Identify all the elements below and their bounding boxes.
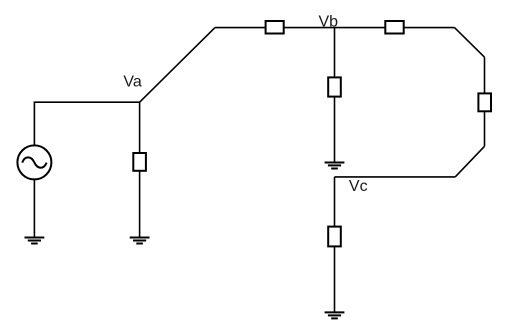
ground (source)	[25, 238, 45, 244]
resistor R4 (Vb branch vertical)	[328, 77, 341, 96]
ground (Vc branch)	[325, 312, 345, 318]
wire: right vertical	[484, 57, 486, 146]
wire: top horizontal bus	[215, 27, 455, 29]
wire: Vc horizontal run	[335, 176, 456, 178]
wire: bottom-right diagonal	[455, 146, 484, 177]
ground (Va branch)	[130, 238, 150, 244]
resistor R2 (top-right horizontal)	[385, 21, 403, 34]
resistor R3 (Va branch vertical)	[133, 153, 146, 171]
resistor R5 (right branch vertical)	[478, 93, 491, 111]
wire: Va node down to ground	[139, 102, 141, 237]
wire: source top to Va horizontal run	[34, 102, 139, 144]
resistor R6 (Vc branch vertical)	[328, 227, 341, 247]
ground (Vb branch)	[325, 163, 345, 169]
wire: Vc node down to ground	[334, 177, 336, 313]
svg-text:Va: Va	[123, 74, 141, 91]
wire: Vb node down to ground	[334, 28, 336, 163]
wire: top-right diagonal	[455, 28, 485, 58]
svg-text:Vc: Vc	[349, 178, 368, 195]
wire: source bottom to ground	[33, 179, 35, 237]
svg-text:Vb: Vb	[319, 14, 339, 31]
resistor R1 (top-left horizontal)	[266, 21, 284, 34]
wire: Va diagonal up to top bus	[140, 28, 215, 103]
voltage source V1 (AC)	[17, 145, 51, 179]
